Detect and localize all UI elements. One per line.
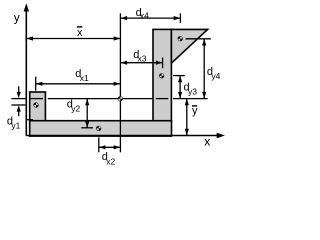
dimension y-bar xyxy=(185,99,189,136)
svg-text:x3: x3 xyxy=(138,54,147,64)
centroid dot part 1 xyxy=(33,102,38,107)
centroid dot part 4 xyxy=(178,36,183,41)
column rectangle (part 3) xyxy=(153,29,171,120)
label d_y4 xyxy=(207,66,221,81)
x-axis xyxy=(26,133,225,138)
dimension d_x1 xyxy=(36,77,121,91)
centroid dot part 3 xyxy=(159,73,164,78)
dimension d_y1 xyxy=(11,86,25,116)
dimension d_x3 xyxy=(120,57,162,68)
label d_x1 xyxy=(75,68,89,83)
y-axis xyxy=(24,3,29,136)
label d_y1 xyxy=(7,116,21,131)
svg-text:x: x xyxy=(77,27,83,39)
centroid dot part 2 xyxy=(96,126,101,131)
svg-text:x: x xyxy=(204,134,210,148)
dimension d_y2 xyxy=(81,99,93,128)
dimension d_y3 xyxy=(173,76,185,99)
label d_x3 xyxy=(133,49,147,64)
tick at base top-left xyxy=(27,119,33,121)
dimension d_x2 xyxy=(99,137,121,152)
centroid horizontal line through C xyxy=(30,98,208,100)
base rectangle (part 2) xyxy=(30,121,172,136)
svg-text:y2: y2 xyxy=(71,103,80,113)
svg-text:y: y xyxy=(14,11,20,25)
svg-text:y1: y1 xyxy=(11,120,20,130)
svg-text:x2: x2 xyxy=(106,156,115,166)
triangle (part 4) xyxy=(171,29,207,63)
label d_y3 xyxy=(184,81,198,96)
dimension d_x4 xyxy=(120,13,180,23)
label x-bar xyxy=(77,27,83,39)
label y-bar xyxy=(192,105,198,117)
small left rectangle (part 1) xyxy=(30,92,46,121)
centroid vertical line through C xyxy=(119,13,121,152)
svg-text:x1: x1 xyxy=(80,73,89,83)
svg-text:y4: y4 xyxy=(211,71,220,81)
dimension d_y4 xyxy=(186,39,211,99)
svg-text:y3: y3 xyxy=(188,86,197,96)
label d_x4 xyxy=(136,7,150,21)
centroid dot C (composite) xyxy=(118,96,123,101)
label d_x2 xyxy=(102,151,116,167)
label d_y2 xyxy=(67,98,81,113)
svg-text:y: y xyxy=(192,105,198,117)
svg-text:x4: x4 xyxy=(140,10,149,20)
dimension x-bar xyxy=(26,36,120,40)
